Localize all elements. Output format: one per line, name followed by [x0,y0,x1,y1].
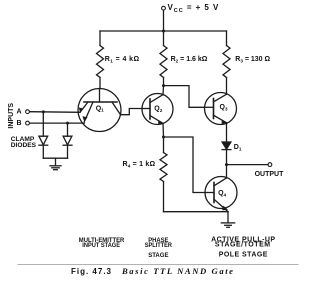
wire Vcc stem [163,10,165,31]
svg-text:R4 = 1 kΩ: R4 = 1 kΩ [123,161,156,168]
svg-text:B: B [17,120,22,127]
ground main [221,212,234,228]
wire R2 to Q2 collector junction [163,78,165,86]
ground clamp diodes [50,158,61,170]
wire Q2 collector up [162,86,165,95]
wire R3 to Q3 collector [226,78,228,95]
svg-text:Fig. 47.3: Fig. 47.3 [71,267,112,276]
junction rail/Vcc [162,30,165,33]
wire Q2 emitter down [162,123,165,137]
svg-text:INPUT STAGE: INPUT STAGE [82,242,120,249]
transistor Q4 [205,177,237,212]
svg-text:R1 = 4 kΩ: R1 = 4 kΩ [105,56,140,63]
wire junction to R4 [163,137,165,153]
wire output junction to Q4 collector [226,165,228,178]
svg-text:INPUTS: INPUTS [8,103,15,129]
wire Q1 collector to Q2 base [121,109,143,115]
resistor R2 [160,46,167,78]
svg-text:DIODES: DIODES [11,142,37,149]
wire clamp diodes common [43,157,67,159]
clamp diode 2 [63,123,72,158]
svg-text:Q4: Q4 [218,190,226,197]
svg-text:SPLITTER: SPLITTER [145,242,173,249]
transistor Q2 [142,94,173,125]
diode D1 [222,142,231,150]
junction R2 / Q2 collector [162,84,165,87]
transistor Q1 [78,89,121,132]
wire rail to R2 [163,31,165,46]
wire top supply rail [100,30,227,32]
svg-text:R3 = 130 Ω: R3 = 130 Ω [235,56,270,63]
junction A / clamp diode 1 [42,110,45,113]
svg-text:Q2: Q2 [154,106,162,113]
wire bottom rail [164,211,229,213]
junction B / clamp diode 2 [66,122,69,125]
transistor Q3 [205,93,237,125]
output terminal [268,163,272,167]
wire D1 to output junction [226,150,228,165]
junction output [225,163,228,166]
wire R4 to bottom rail [163,182,165,212]
clamp diode 1 [39,112,48,158]
wire Q3 emitter to D1 [226,123,228,142]
wire output [227,164,269,166]
svg-text:STAGE/TOTEM: STAGE/TOTEM [215,242,270,249]
junction Q2 emitter / R4 [162,136,165,139]
node Vcc terminal [162,6,166,10]
svg-text:STAGE: STAGE [148,252,169,259]
input terminal B [26,121,30,125]
wire rail to R3 [226,31,228,46]
resistor R3 [223,46,230,78]
wire Q2 emitter to Q4 base [164,137,206,193]
svg-text:D1: D1 [234,144,242,151]
caption rule [18,264,298,266]
svg-text:OUTPUT: OUTPUT [255,171,285,178]
wire Q2 collector to Q3 base [164,86,205,108]
svg-text:R2 = 1.6 kΩ: R2 = 1.6 kΩ [171,56,208,63]
input terminal A [26,110,30,114]
svg-text:A: A [17,109,22,116]
resistor R4 [160,153,167,182]
wire input B to Q1 emitter2 [30,122,85,124]
resistor R1 [97,46,104,78]
svg-text:Q3: Q3 [220,104,228,111]
wire input A to Q1 emitter1 [30,111,80,114]
svg-text:Q1: Q1 [96,105,104,112]
svg-text:Basic TTL NAND Gate: Basic TTL NAND Gate [121,266,233,276]
wire R1 to Q1 base [99,78,101,89]
svg-text:POLE STAGE: POLE STAGE [219,251,268,258]
wire rail to R1 [99,31,101,46]
svg-text:VCC = + 5 V: VCC = + 5 V [168,3,220,14]
